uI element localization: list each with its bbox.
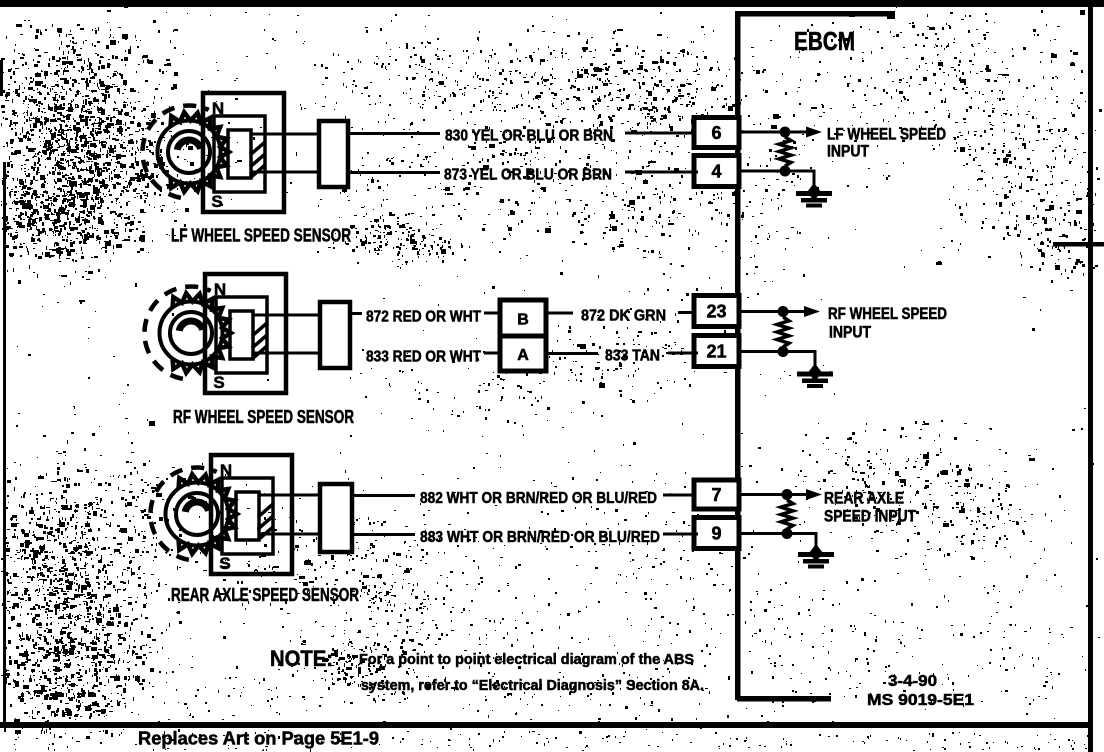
- svg-text:N: N: [212, 99, 224, 118]
- resistor: LF input bias: [779, 137, 791, 166]
- wire: connector to label 873: [348, 171, 440, 174]
- page top border: [0, 0, 1104, 7]
- LF wheel speed sensor U1: magnet body rect: [203, 93, 284, 212]
- svg-text:Replaces Art on Page 5E1-9: Replaces Art on Page 5E1-9: [138, 728, 379, 749]
- page right border: [1088, 0, 1093, 752]
- node: rear return junction: [782, 528, 793, 539]
- svg-text:833 RED OR WHT: 833 RED OR WHT: [366, 349, 481, 366]
- wire: RF return node to ground: [783, 352, 815, 373]
- svg-text:N: N: [214, 280, 226, 299]
- svg-text:REAR AXLE: REAR AXLE: [824, 490, 904, 508]
- RF wheel speed sensor U2: magnet body rect: [205, 274, 286, 393]
- svg-text:23: 23: [706, 302, 726, 322]
- ground: LF input: [796, 183, 832, 208]
- page bottom rule: [0, 722, 1092, 728]
- rear axle speed sensor U3: pole frame rect: [222, 478, 273, 554]
- resistor: rear input bias: [781, 500, 793, 529]
- ground: RF input: [797, 364, 833, 389]
- svg-text:S: S: [211, 192, 222, 211]
- arrow: rear axle speed input: [787, 493, 810, 496]
- wire: connector to label 872: [350, 312, 362, 315]
- LF wheel speed sensor U1: dashed rotor circle: [142, 106, 208, 198]
- rear axle speed sensor U3: rotor inner circle: [176, 493, 218, 535]
- page left border: [3, 162, 6, 722]
- EBCM left boundary line: [735, 13, 741, 700]
- svg-text:REAR AXLE SPEED SENSOR: REAR AXLE SPEED SENSOR: [171, 585, 359, 605]
- svg-text:LF WHEEL SPEED SENSOR: LF WHEEL SPEED SENSOR: [171, 226, 351, 246]
- svg-text:N: N: [220, 461, 232, 480]
- wire: connector A to label 833 TAN: [546, 352, 598, 355]
- svg-text:B: B: [517, 312, 529, 329]
- RF wheel speed sensor U2: coil winding hatch: [252, 323, 267, 359]
- node: LF speed junction: [780, 127, 791, 138]
- right border tick: [1053, 242, 1104, 247]
- LF wheel speed sensor U1: hub arc: [177, 140, 200, 150]
- RF wheel speed sensor U2: rotor outer circle: [160, 302, 223, 365]
- wire: rear sensor to connector pin 2: [259, 533, 320, 536]
- rear axle speed sensor U3: dashed rotor circle: [150, 468, 216, 560]
- svg-text:873 YEL OR BLU OR BRN: 873 YEL OR BLU OR BRN: [444, 167, 612, 184]
- EBCM pin 23: [694, 296, 739, 327]
- LF wheel speed sensor U1: rotor outer circle: [158, 121, 221, 184]
- svg-text:RF WHEEL SPEED: RF WHEEL SPEED: [828, 305, 947, 323]
- node: rear axle speed junction: [782, 489, 793, 500]
- wire: label 883 to EBCM pin 9: [663, 533, 698, 536]
- svg-text:LF WHEEL SPEED: LF WHEEL SPEED: [827, 126, 946, 144]
- EBCM bottom stub: [737, 696, 831, 702]
- RF wheel speed sensor U2: toothed exciter ring: [173, 293, 232, 372]
- RF wheel speed sensor U2: hub arc: [179, 321, 202, 331]
- wire: label 833 to connector A: [484, 352, 500, 355]
- svg-text:872 DK GRN: 872 DK GRN: [581, 308, 666, 325]
- wire: label 830 to EBCM pin 6: [625, 132, 698, 135]
- arrow: RF wheel speed input: [783, 310, 808, 313]
- LF wheel speed sensor U1: pole frame rect: [214, 116, 265, 192]
- EBCM pin 7: [694, 480, 739, 509]
- rear axle speed sensor U3: magnet body rect: [211, 455, 292, 574]
- wire: pin 7 to node rear: [738, 493, 787, 496]
- RF wheel speed sensor U2: coil bobbin rect: [230, 311, 253, 359]
- wire: pin 9 to rear return node: [738, 532, 787, 535]
- RF wheel speed sensor U2: rotor inner circle: [170, 312, 212, 354]
- RF sensor connector: [320, 302, 350, 368]
- wire: label 882 to EBCM pin 7: [663, 494, 698, 497]
- wire: rear return node to ground: [787, 534, 816, 554]
- svg-text:S: S: [213, 373, 224, 392]
- wire: connector to label 883: [352, 533, 415, 536]
- svg-text:INPUT: INPUT: [829, 324, 871, 342]
- node: RF speed junction: [778, 306, 789, 317]
- svg-text:6: 6: [711, 123, 721, 143]
- node: RF return junction: [778, 346, 789, 357]
- rear axle speed sensor U3: hub arc: [185, 502, 208, 512]
- wire: RF sensor to connector pin 1: [253, 314, 320, 317]
- svg-text:9: 9: [711, 524, 721, 544]
- svg-text:4: 4: [711, 162, 721, 182]
- svg-text:872 RED OR WHT: 872 RED OR WHT: [366, 309, 481, 326]
- RF wheel speed sensor U2: pole frame rect: [216, 297, 267, 373]
- wire: connector to label 882: [352, 494, 415, 497]
- svg-text:SPEED INPUT: SPEED INPUT: [824, 508, 916, 526]
- wire: LF return node to ground: [785, 171, 814, 192]
- svg-text:7: 7: [711, 485, 721, 505]
- svg-text:For a point to point electrica: For a point to point electrical diagram …: [359, 652, 694, 668]
- svg-text:833 TAN: 833 TAN: [605, 348, 660, 365]
- LF wheel speed sensor U1: toothed exciter ring: [171, 112, 230, 191]
- svg-text:EBCM: EBCM: [794, 26, 855, 56]
- wire: rear sensor to connector pin 1: [259, 494, 320, 497]
- svg-text:883 WHT OR BRN/RED OR BLU/RED: 883 WHT OR BRN/RED OR BLU/RED: [420, 529, 660, 546]
- wire: connector B to label 872 DK GRN: [546, 312, 573, 315]
- wire: RF sensor to connector pin 2: [253, 352, 320, 355]
- wire: pin 21 to RF return node: [739, 350, 783, 353]
- svg-text:21: 21: [706, 342, 726, 362]
- svg-text:INPUT: INPUT: [827, 143, 869, 161]
- wire: label to EBCM pin 23: [678, 311, 698, 314]
- wire: label 873 to EBCM pin 4: [625, 171, 698, 174]
- EBCM pin 6: [694, 118, 739, 148]
- svg-text:RF WHEEL SPEED SENSOR: RF WHEEL SPEED SENSOR: [173, 407, 354, 427]
- wire: LF sensor to connector pin 2: [251, 171, 319, 174]
- EBCM top line: [735, 11, 894, 17]
- svg-text:830 YEL OR BLU OR BRN: 830 YEL OR BLU OR BRN: [445, 128, 613, 145]
- arrow: LF wheel speed input: [785, 131, 810, 134]
- EBCM pin 9: [694, 518, 739, 549]
- wire: pin 6 to node LF: [739, 131, 785, 134]
- connector C2 cell A: [500, 336, 546, 371]
- wire: connector to label 830: [348, 132, 440, 135]
- wire: pin 23 to node RF: [739, 310, 783, 313]
- EBCM pin 4: [694, 156, 739, 187]
- svg-text:3-4-90: 3-4-90: [888, 673, 937, 690]
- resistor: RF input bias: [777, 317, 789, 347]
- wire: LF sensor to connector pin 1: [251, 133, 319, 136]
- svg-text:A: A: [517, 347, 529, 364]
- rear sensor connector: [320, 484, 352, 552]
- LF sensor connector: [319, 121, 348, 187]
- svg-text:882 WHT OR BRN/RED OR BLU/RED: 882 WHT OR BRN/RED OR BLU/RED: [420, 490, 657, 507]
- LF wheel speed sensor U1: coil winding hatch: [250, 142, 265, 178]
- RF wheel speed sensor U2: dashed rotor circle: [144, 287, 210, 379]
- svg-text:system, refer to “Electrical D: system, refer to “Electrical Diagnosis” …: [361, 678, 704, 694]
- EBCM pin 21: [694, 336, 739, 367]
- rear axle speed sensor U3: toothed exciter ring: [179, 474, 238, 553]
- wire: label 833 TAN to pin 21: [668, 352, 698, 355]
- node: LF return junction: [780, 166, 791, 177]
- wire: pin 4 to LF return node: [739, 170, 785, 173]
- svg-text:MS 9019-5E1: MS 9019-5E1: [867, 692, 974, 709]
- svg-text:NOTE:: NOTE:: [270, 646, 333, 671]
- ground: rear axle input: [798, 544, 834, 569]
- rear axle speed sensor U3: coil winding hatch: [258, 504, 273, 540]
- rear axle speed sensor U3: coil bobbin rect: [236, 492, 259, 540]
- LF wheel speed sensor U1: coil bobbin rect: [228, 130, 251, 178]
- rear axle speed sensor U3: rotor outer circle: [166, 483, 229, 546]
- LF wheel speed sensor U1: rotor inner circle: [168, 131, 210, 173]
- left edge mark: [0, 60, 3, 96]
- connector C2 cell B: [500, 300, 546, 336]
- svg-text:S: S: [219, 554, 230, 573]
- wire: label 872 to connector B: [484, 312, 500, 315]
